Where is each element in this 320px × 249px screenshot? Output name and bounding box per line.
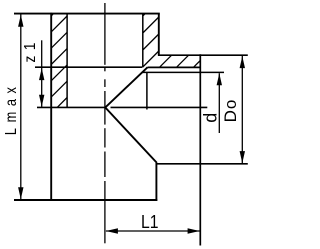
svg-text:Do: Do xyxy=(221,99,240,123)
svg-text:d: d xyxy=(200,113,220,123)
svg-text:Lmax: Lmax xyxy=(3,81,21,135)
svg-text:L1: L1 xyxy=(141,211,158,233)
svg-text:z1: z1 xyxy=(22,37,39,62)
